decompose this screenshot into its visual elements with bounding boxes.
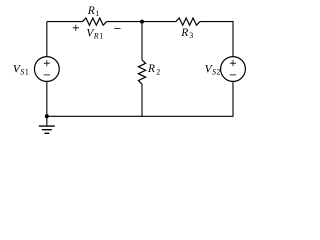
resistor R3 [176,18,200,25]
wire: R1 to node A [107,21,142,23]
VS2 minus sign [230,74,236,76]
polarity minus for V_R1 [114,27,120,29]
bottom wire: node B to R2 bottom [47,115,142,117]
resistor R2 [138,60,145,84]
svg-text:R: R [93,32,99,41]
svg-text:1: 1 [99,32,103,41]
svg-text:1: 1 [25,68,29,77]
node A junction dot [140,20,144,24]
svg-text:S: S [20,68,24,77]
svg-text:1: 1 [95,9,99,18]
wire: left rail top, V_S1 to top-left corner [46,22,48,57]
wire: R3 to V_S2 top [200,22,233,57]
wire: node A down to R2 [141,22,143,60]
node B junction dot [45,114,49,118]
VS2 plus sign [230,60,236,66]
svg-text:2: 2 [156,67,160,76]
VS1 plus sign [44,60,50,66]
wire: V_S2 bottom to bottom rail [142,81,233,116]
voltage source VS1 [34,57,59,82]
ground [39,116,55,133]
svg-text:R: R [180,27,188,39]
svg-text:2: 2 [216,68,220,77]
voltage source VS2 [221,57,246,82]
wire: top-left corner from left rail to R1 [47,21,83,23]
resistor R1 [83,18,107,25]
wire: R2 to bottom rail [141,84,143,116]
svg-text:3: 3 [189,31,193,40]
svg-text:R: R [87,5,95,17]
wire: V_S1 bottom to node B [46,81,48,116]
wire: node A to R3 [142,21,176,23]
polarity plus for V_R1 [73,25,79,31]
svg-text:R: R [147,63,155,75]
VS1 minus sign [44,74,50,76]
svg-text:S: S [212,68,216,77]
